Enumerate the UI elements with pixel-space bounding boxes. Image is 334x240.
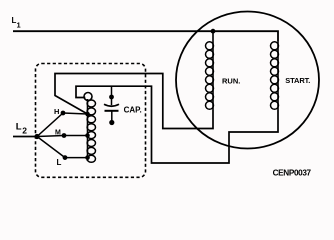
svg-text:H: H <box>54 107 59 116</box>
svg-text:M: M <box>55 130 61 137</box>
svg-text:2: 2 <box>22 125 27 135</box>
svg-text:START.: START. <box>285 76 310 85</box>
svg-text:RUN.: RUN. <box>222 77 240 86</box>
svg-text:CENP0037: CENP0037 <box>273 168 312 177</box>
svg-text:CAP.: CAP. <box>124 105 142 114</box>
svg-text:L: L <box>57 158 62 167</box>
svg-text:1: 1 <box>17 21 21 30</box>
svg-text:L: L <box>16 122 22 133</box>
